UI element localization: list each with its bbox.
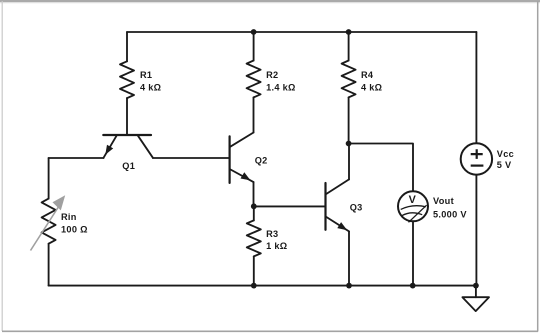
svg-text:R3: R3 xyxy=(266,229,278,239)
wire Q2 collector up to R2 xyxy=(253,97,255,132)
wire Q3 collector up to node xyxy=(348,144,350,180)
svg-text:Q1: Q1 xyxy=(122,161,135,171)
wire Q3 emitter down to bottom bus xyxy=(348,231,350,285)
junction dot Q3 emitter bottom xyxy=(346,283,352,289)
junction dot collector node xyxy=(346,141,352,147)
svg-text:4 kΩ: 4 kΩ xyxy=(361,83,382,93)
svg-text:5.000 V: 5.000 V xyxy=(433,209,467,219)
Rin adjustment arrow (grey) xyxy=(31,195,66,250)
wire top bus xyxy=(127,31,476,33)
resistor R1 xyxy=(120,32,134,134)
svg-text:R2: R2 xyxy=(266,70,278,80)
svg-text:1.4 kΩ: 1.4 kΩ xyxy=(266,83,296,93)
svg-text:Q2: Q2 xyxy=(255,155,268,165)
voltage source Vcc xyxy=(461,143,492,174)
svg-text:100 Ω: 100 Ω xyxy=(61,225,88,235)
svg-text:Rin: Rin xyxy=(61,212,77,222)
svg-text:Vcc: Vcc xyxy=(497,149,514,159)
svg-text:1 kΩ: 1 kΩ xyxy=(266,241,287,251)
wire bottom bus xyxy=(49,285,476,287)
resistor R2 xyxy=(247,32,261,97)
wire node to voltmeter xyxy=(349,144,413,192)
wire left rail down to Rin xyxy=(48,158,50,199)
wire top bus down to Vcc source xyxy=(475,32,477,143)
junction dot R2 top xyxy=(251,29,257,35)
svg-text:R4: R4 xyxy=(361,70,374,80)
junction dot ground node xyxy=(473,283,479,289)
junction dot R4 top xyxy=(346,29,352,35)
svg-text:R1: R1 xyxy=(140,70,152,80)
svg-text:Q3: Q3 xyxy=(350,202,363,212)
border frame (decorative) xyxy=(0,0,540,2)
wire node to Q3 base xyxy=(254,205,326,207)
resistor R4 xyxy=(342,32,356,144)
resistor R3 xyxy=(247,206,261,285)
wire Q2 emitter down to node xyxy=(253,182,255,206)
transistor Q2 xyxy=(230,133,254,183)
ground xyxy=(462,286,489,312)
wire voltmeter to bottom bus xyxy=(412,221,414,285)
wire Vcc to bottom bus xyxy=(475,175,477,286)
wire Q1 collector to Q2 base xyxy=(153,157,230,159)
svg-text:5 V: 5 V xyxy=(497,160,512,170)
svg-text:4 kΩ: 4 kΩ xyxy=(140,83,161,93)
svg-text:Vout: Vout xyxy=(433,196,454,206)
junction dot R3 bottom xyxy=(251,283,257,289)
svg-text:V: V xyxy=(409,194,417,206)
junction dot emitter node xyxy=(251,203,257,209)
transistor Q1 xyxy=(103,135,153,158)
resistor Rin xyxy=(42,199,56,286)
junction dot voltmeter bottom xyxy=(410,283,416,289)
voltmeter U1 (Vout meter) xyxy=(398,191,428,222)
wire Q1 emitter to left rail xyxy=(49,157,104,159)
transistor Q3 xyxy=(326,179,350,231)
